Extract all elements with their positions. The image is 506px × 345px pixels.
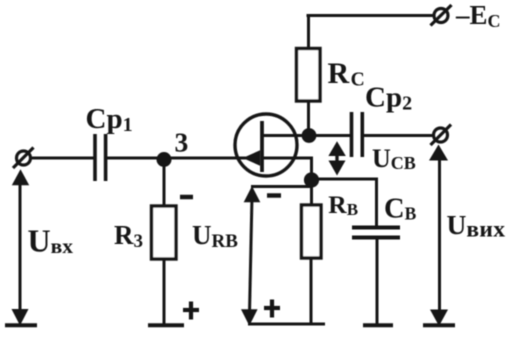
voltage arrow URB: [241, 186, 260, 326]
wire emitter to base node: [261, 158, 312, 176]
ground Uvyh: [423, 323, 455, 327]
resistor RC: [297, 15, 321, 134]
polarity plus R3: [183, 302, 199, 320]
svg-text:Cp1: Cp1: [86, 103, 133, 136]
capacitor CB: [352, 228, 400, 325]
wire node 3 to emitter: [164, 157, 246, 160]
voltage arrow UCB: [328, 141, 345, 175]
svg-text:3: 3: [175, 127, 189, 158]
wire node to Cp2: [310, 134, 350, 137]
terminal -EC: [431, 5, 452, 26]
wire input to Cp1: [30, 157, 94, 160]
node collector: [302, 128, 317, 143]
wire bottom: [248, 323, 325, 326]
svg-text:RC: RC: [328, 57, 365, 91]
ground CB: [363, 323, 393, 327]
wire base node to CB: [318, 179, 377, 226]
ground R3: [148, 323, 184, 327]
capacitor Cp2: [352, 112, 363, 157]
node 3: [157, 152, 172, 167]
polarity minus base: [267, 193, 281, 198]
polarity plus base: [264, 300, 280, 318]
resistor RB: [302, 205, 322, 324]
wire Cp2 to output terminal: [364, 134, 434, 137]
svg-text:R3: R3: [114, 220, 143, 252]
svg-text:Uвх: Uвх: [28, 223, 74, 259]
wire base node down to RB: [310, 180, 313, 206]
node base: [304, 172, 319, 187]
capacitor Cp1: [95, 134, 106, 181]
svg-text:Cp2: Cp2: [365, 82, 412, 115]
wire top rail: [307, 14, 435, 17]
polarity minus R3: [180, 195, 193, 200]
wire collector: [261, 134, 306, 137]
resistor R3: [152, 159, 177, 324]
svg-text:RВ: RВ: [328, 190, 358, 219]
output terminal: [431, 125, 452, 146]
svg-text:UСВ: UСВ: [372, 144, 416, 173]
svg-text:–EC: –EC: [455, 0, 501, 31]
svg-text:Uвих: Uвих: [447, 209, 506, 243]
voltage arrow Uvyh: [429, 145, 448, 327]
wire Cp1 to node 3: [107, 157, 162, 160]
input terminal: [13, 148, 34, 169]
voltage arrow Uvx: [12, 169, 30, 325]
svg-text:CВ: CВ: [384, 194, 417, 225]
transistor VT: [235, 114, 297, 176]
wire URB branch: [251, 185, 311, 188]
svg-text:URВ: URВ: [192, 220, 238, 252]
ground Uvx: [5, 323, 37, 327]
